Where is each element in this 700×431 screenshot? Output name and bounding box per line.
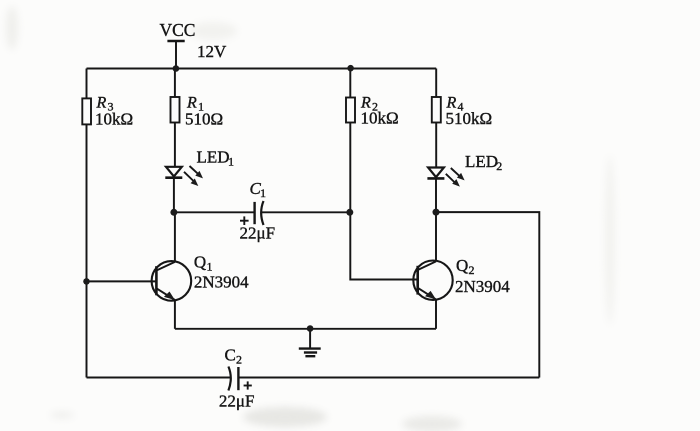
svg-text:1: 1	[260, 186, 266, 200]
svg-text:C: C	[225, 346, 236, 365]
svg-text:1: 1	[207, 259, 213, 273]
svg-text:LED: LED	[197, 148, 230, 167]
svg-text:510kΩ: 510kΩ	[446, 109, 493, 128]
svg-text:2N3904: 2N3904	[455, 277, 510, 296]
svg-text:2: 2	[469, 263, 475, 277]
svg-text:10kΩ: 10kΩ	[95, 110, 133, 129]
svg-text:VCC: VCC	[160, 20, 196, 40]
svg-text:10kΩ: 10kΩ	[361, 109, 399, 128]
svg-text:2: 2	[496, 159, 502, 173]
svg-text:2: 2	[236, 353, 242, 367]
svg-text:Q: Q	[194, 252, 206, 271]
svg-text:2N3904: 2N3904	[194, 272, 249, 291]
svg-text:Q: Q	[456, 256, 468, 275]
svg-text:510Ω: 510Ω	[185, 110, 223, 129]
svg-text:1: 1	[228, 155, 234, 169]
svg-text:12V: 12V	[197, 42, 227, 61]
svg-text:22μF: 22μF	[240, 224, 276, 243]
svg-text:LED: LED	[465, 152, 498, 171]
svg-text:22μF: 22μF	[219, 391, 255, 410]
